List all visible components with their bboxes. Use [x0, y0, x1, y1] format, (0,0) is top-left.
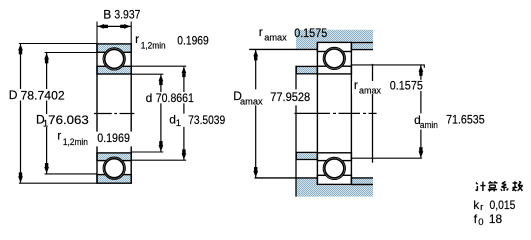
- title 计算系数 (calculation factors) drawn strokes: [476, 181, 523, 191]
- housing bottom body: [296, 185, 373, 196]
- svg-text:amin: amin: [420, 120, 438, 131]
- svg-text:0.1575: 0.1575: [294, 26, 327, 40]
- dimension damin extension bottom: [351, 157, 422, 159]
- left bearing inner ring bottom section: [97, 153, 131, 161]
- right bearing outer ring bottom section: [317, 175, 351, 184]
- svg-text:0: 0: [478, 217, 483, 228]
- housing bottom left block: [296, 178, 317, 196]
- dimension D1 line with arrows: [44, 53, 49, 173]
- svg-text:78.7402: 78.7402: [21, 88, 66, 102]
- right bearing ball top: [325, 49, 344, 68]
- svg-text:0.1969: 0.1969: [177, 34, 209, 48]
- left bearing axis centerline: [94, 113, 134, 115]
- dimension B extension line right: [130, 22, 132, 44]
- right bearing ball bottom: [325, 159, 344, 178]
- svg-text:1,2min: 1,2min: [63, 137, 88, 148]
- svg-text:amax: amax: [359, 86, 381, 97]
- housing top right shoulder bottom edge: [351, 49, 373, 51]
- dimension Damax line with arrows: [253, 50, 258, 177]
- svg-text:D: D: [9, 88, 18, 102]
- dimension D extension bottom: [19, 182, 97, 184]
- label B 3.937: [103, 8, 140, 22]
- svg-text:77.9528: 77.9528: [270, 90, 310, 104]
- svg-text:r: r: [259, 25, 263, 39]
- label r amax 0.1575 right: [352, 78, 424, 97]
- left bearing ball top: [105, 49, 124, 68]
- dimension damin line with arrows: [419, 65, 424, 157]
- dimension D line with arrows: [18, 44, 23, 183]
- left bearing ball bottom: [105, 159, 124, 178]
- left bearing inner ring top section: [97, 66, 131, 74]
- svg-text:r: r: [354, 78, 358, 92]
- label r12min 0.1969 lower: [56, 129, 133, 149]
- dimension D extension top: [19, 43, 97, 45]
- svg-text:3.937: 3.937: [114, 8, 140, 22]
- right bearing raceway groove top: [323, 47, 345, 69]
- left bearing right face line: [130, 43, 132, 183]
- label r amax 0.1575 top: [259, 25, 328, 44]
- svg-text:73.5039: 73.5039: [188, 113, 225, 127]
- label r12min 0.1969 upper: [134, 32, 211, 52]
- shaft section left cut edge line: [295, 66, 297, 197]
- svg-text:amax: amax: [240, 97, 263, 108]
- dimension D1 extension bottom: [45, 173, 97, 175]
- svg-text:0.1969: 0.1969: [97, 131, 130, 145]
- shaft shoulder tab top: [296, 66, 317, 73]
- dimension B line with arrows: [97, 24, 130, 29]
- dimension damin extension top: [351, 64, 424, 66]
- label D 78.7402: [7, 88, 67, 102]
- svg-text:0.1575: 0.1575: [390, 78, 423, 92]
- housing bottom right shoulder: [351, 179, 373, 184]
- svg-text:amax: amax: [264, 32, 287, 43]
- svg-text:0,015: 0,015: [490, 198, 516, 212]
- left bearing raceway groove top: [103, 48, 125, 70]
- housing top right shoulder: [351, 43, 373, 48]
- svg-text:70.8661: 70.8661: [156, 91, 194, 105]
- housing Da bottom edge line / Damax extension bottom: [255, 177, 374, 179]
- dimension d1 line with arrows: [182, 67, 187, 160]
- housing top left shoulder: [296, 42, 317, 49]
- dimension B extension line left: [96, 22, 98, 44]
- right bearing inner ring bottom section: [317, 153, 351, 161]
- label d1 73.5039: [167, 112, 228, 129]
- svg-text:76.063: 76.063: [48, 113, 89, 127]
- dimension d1 extension top: [131, 65, 186, 67]
- left bearing left face line: [96, 43, 98, 183]
- label D1 76.063: [35, 112, 91, 129]
- left bearing raceway groove bottom: [103, 157, 125, 179]
- label Damax 77.9528: [231, 89, 312, 107]
- svg-text:1: 1: [176, 118, 181, 129]
- housing top body right view: [296, 30, 373, 43]
- right bearing raceway groove bottom: [323, 157, 345, 179]
- svg-text:18: 18: [489, 212, 503, 226]
- right bearing axis centerline: [295, 112, 377, 114]
- dimension damin extension top end hook: [423, 65, 425, 68]
- label damin 71.6535: [412, 113, 488, 131]
- svg-text:r: r: [57, 129, 61, 143]
- dimension d extension bottom: [131, 151, 163, 153]
- housing Da top edge line / Damax extension top: [249, 48, 317, 50]
- right bearing outer ring top section: [317, 42, 351, 51]
- svg-text:d: d: [146, 91, 153, 105]
- label kr 0,015: [473, 198, 515, 213]
- dimension d1 extension bottom: [131, 159, 186, 161]
- right bearing left face line: [316, 42, 318, 184]
- svg-text:71.6535: 71.6535: [446, 113, 485, 127]
- svg-text:r: r: [135, 32, 139, 46]
- left bearing outer ring top section: [97, 44, 131, 52]
- dimension D1 extension top: [45, 52, 97, 54]
- housing bottom right bore line: [351, 184, 373, 186]
- shaft shoulder tab bottom: [296, 152, 317, 159]
- right bearing right face line: [350, 42, 352, 184]
- label f0 18: [474, 212, 503, 228]
- svg-text:B: B: [103, 8, 111, 22]
- svg-text:1,2min: 1,2min: [141, 40, 166, 51]
- dimension d line with arrows: [159, 75, 164, 152]
- svg-text:r: r: [480, 202, 483, 213]
- shaft right edge line: [372, 64, 374, 163]
- housing top right bore line: [351, 42, 373, 44]
- label d 70.8661: [144, 91, 197, 105]
- left bearing outer ring bottom section: [97, 175, 131, 184]
- dimension d extension top: [131, 73, 163, 75]
- right bearing inner ring top section: [317, 66, 351, 74]
